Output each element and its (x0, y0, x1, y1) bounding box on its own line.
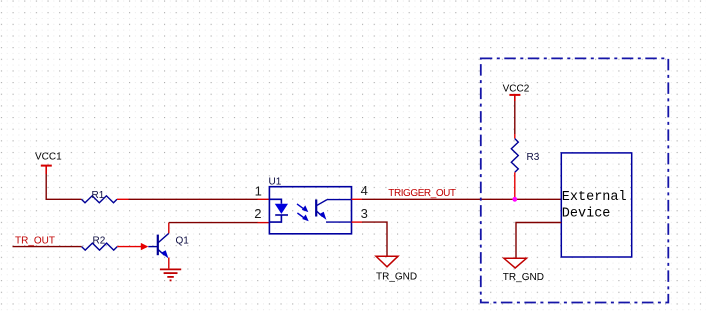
resistor R3 (511, 139, 539, 173)
wire VCC2 to R3 (514, 101, 516, 139)
svg-text:1: 1 (255, 184, 262, 199)
svg-text:TRIGGER_OUT: TRIGGER_OUT (388, 188, 456, 199)
svg-text:TR_OUT: TR_OUT (15, 236, 55, 247)
transistor Q1 (158, 233, 189, 258)
svg-text:Device: Device (562, 206, 611, 221)
wire R1 to U1 pin1 (117, 198, 269, 200)
svg-text:2: 2 (254, 206, 261, 221)
net label TRIGGER_OUT (388, 188, 456, 199)
pin 3 (361, 206, 368, 221)
light arrows (297, 204, 309, 221)
wire R3 to junction (514, 172, 516, 197)
ground (power gnd below Q1) (160, 269, 181, 280)
svg-text:Q1: Q1 (176, 236, 190, 247)
svg-text:R1: R1 (92, 190, 105, 201)
pin 1 (255, 184, 262, 199)
wire R2 to Q1 base with arrow (117, 243, 158, 250)
svg-text:3: 3 (361, 206, 368, 221)
svg-text:R2: R2 (93, 236, 106, 247)
wire VCC1 to R1 (46, 174, 81, 199)
External Device box (561, 153, 631, 257)
ground TR_GND (right) (503, 258, 544, 283)
svg-text:R3: R3 (527, 152, 540, 163)
dashed box (external device region) (481, 58, 669, 302)
svg-text:External: External (562, 190, 627, 205)
power port VCC2 (503, 83, 530, 101)
net label TR_OUT (15, 236, 55, 247)
junction node (512, 197, 517, 202)
op-amp U1 (optocoupler) (269, 177, 352, 234)
resistor R1 (81, 190, 117, 203)
wire U1 pin4 to External Device (TRIGGER_OUT net) (352, 198, 562, 200)
svg-text:VCC1: VCC1 (35, 152, 62, 163)
wire External Device to TR_GND (right) (516, 223, 561, 259)
resistor R2 (82, 236, 118, 251)
svg-text:TR_GND: TR_GND (503, 272, 544, 283)
wire Q1 collector to U1 pin2 (169, 223, 270, 234)
phototransistor inside U1 (316, 200, 351, 223)
wire TR_OUT to R2 (13, 246, 82, 248)
wire Q1 emitter to ground (168, 258, 170, 269)
svg-text:U1: U1 (269, 177, 282, 188)
ground TR_GND (left) (376, 256, 417, 282)
LED inside U1 (269, 199, 288, 222)
svg-text:TR_GND: TR_GND (376, 272, 417, 283)
pin 2 (254, 206, 261, 221)
power port VCC1 (35, 152, 62, 175)
wire U1 pin3 to TR_GND (352, 222, 388, 256)
svg-text:4: 4 (361, 183, 368, 198)
pin 4 (361, 183, 368, 198)
svg-text:VCC2: VCC2 (503, 83, 530, 94)
